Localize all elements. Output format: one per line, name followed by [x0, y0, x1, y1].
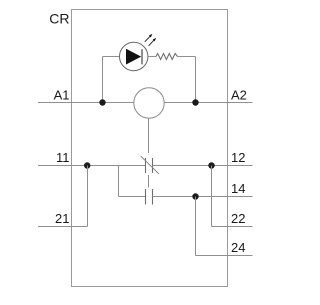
junction dot A2 branch — [192, 99, 198, 105]
terminal 11 label — [56, 150, 70, 165]
terminal 12 label — [231, 150, 245, 165]
svg-text:12: 12 — [231, 150, 245, 165]
svg-text:11: 11 — [56, 150, 70, 165]
junction dot A1 branch — [99, 99, 105, 105]
terminal A1 label — [54, 88, 70, 103]
wire row 24 — [196, 255, 253, 257]
junction dot 11-21 — [84, 162, 90, 168]
terminal 21 label — [55, 211, 69, 226]
svg-text:24: 24 — [231, 240, 245, 255]
junction dot 14-24 — [192, 193, 198, 199]
NO contact 11-14 — [146, 189, 153, 205]
relay outline box — [72, 10, 228, 287]
svg-text:21: 21 — [55, 211, 69, 226]
wire 11 to 21 vertical — [87, 166, 89, 227]
wire row 22 — [212, 226, 253, 228]
resistor R1 — [156, 54, 178, 60]
coil K (CR) — [134, 88, 164, 118]
wire common branch vertical — [118, 166, 120, 197]
LED light arrow 1 — [145, 34, 153, 42]
terminal 22 label — [231, 211, 245, 226]
svg-text:A1: A1 — [54, 88, 70, 103]
LED D1 — [120, 42, 148, 70]
wire 14 to 24 vertical — [195, 197, 197, 256]
svg-text:14: 14 — [231, 181, 245, 196]
terminal A2 label — [231, 88, 247, 103]
wire LED branch right vertical — [195, 57, 197, 103]
terminal 14 label — [231, 181, 245, 196]
wire resistor to right corner — [178, 56, 196, 58]
wire LED to resistor — [149, 56, 157, 58]
wire LED branch top left — [103, 56, 120, 58]
wire 12 to 22 vertical — [211, 166, 213, 227]
wire row 12 — [153, 165, 253, 167]
junction dot 12-22 — [208, 162, 214, 168]
LED light arrow 2 — [149, 38, 157, 46]
wire row 21 — [38, 226, 88, 228]
wire LED branch left vertical — [102, 57, 104, 103]
wire A1 row — [38, 102, 134, 104]
svg-text:A2: A2 — [231, 88, 247, 103]
label CR — [49, 11, 69, 27]
coil actuator link upper — [148, 119, 150, 154]
wire A2 row — [165, 102, 253, 104]
wire row 11 — [38, 165, 146, 167]
wire row 14 — [153, 196, 253, 198]
wire common branch to NO contact — [119, 196, 146, 198]
svg-text:22: 22 — [231, 211, 245, 226]
svg-text:CR: CR — [49, 11, 69, 27]
terminal 24 label — [231, 240, 245, 255]
NC contact 11-12 — [141, 156, 159, 174]
coil actuator link lower — [148, 175, 150, 188]
